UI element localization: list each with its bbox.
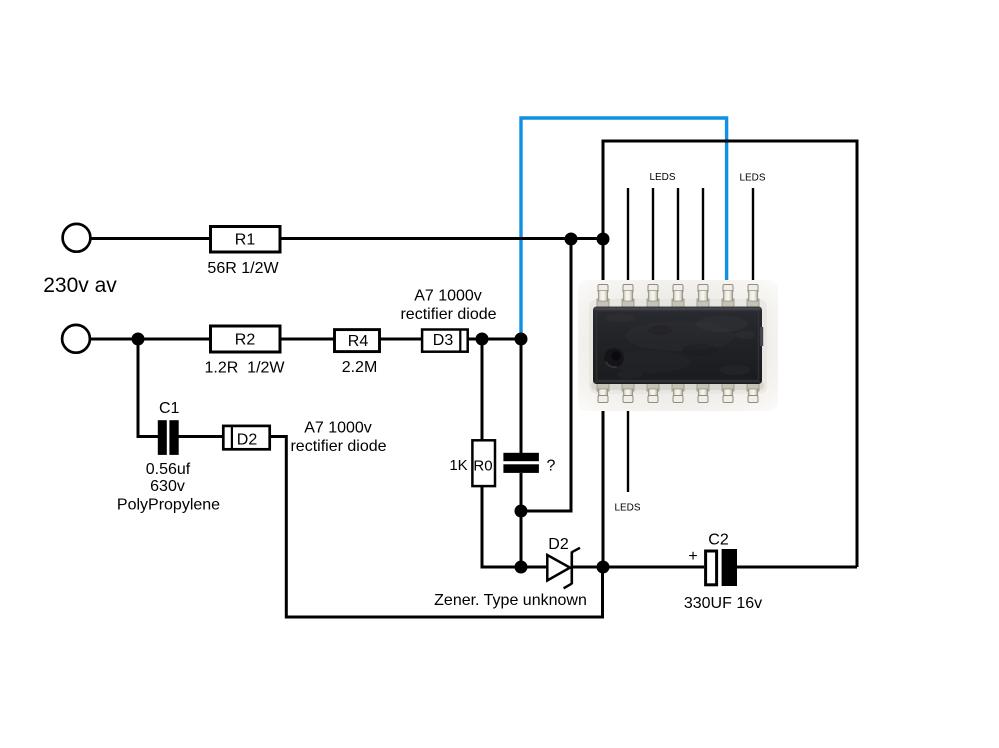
svg-text:0.56uf: 0.56uf <box>146 461 191 478</box>
LED wires (top pins 2-5) <box>628 188 703 288</box>
wire node A up over IC to right rail down to C2 <box>603 141 857 567</box>
svg-text:1.2R 1/2W: 1.2R 1/2W <box>204 359 285 376</box>
node B <box>132 333 145 346</box>
svg-text:R0: R0 <box>473 457 492 474</box>
svg-text:A7 1000v: A7 1000v <box>414 288 482 305</box>
diode D3 <box>422 329 468 353</box>
node F <box>515 561 528 574</box>
svg-text:A7 1000v: A7 1000v <box>304 420 372 437</box>
svg-text:230v av: 230v av <box>43 274 117 297</box>
wire IC pin1 top to node A2 <box>602 239 605 288</box>
wire C1 to D2 box <box>179 435 223 438</box>
IC U1 pin-1 dimple <box>604 348 624 368</box>
svg-text:rectifier diode: rectifier diode <box>400 306 496 323</box>
zener diode D2 <box>547 548 580 589</box>
blue wire (net from node C to IC pin 6 top) <box>521 118 727 338</box>
wire R2 to R4 <box>282 338 335 341</box>
terminal J2 <box>62 325 90 353</box>
svg-text:LEDS: LEDS <box>614 503 640 514</box>
wire R1 to node A <box>282 237 604 240</box>
svg-text:1K: 1K <box>449 457 467 474</box>
node A2 <box>597 233 610 246</box>
svg-text:Zener. Type unknown: Zener. Type unknown <box>434 592 587 609</box>
wire C2 to right rail <box>737 566 857 569</box>
svg-text:PolyPropylene: PolyPropylene <box>117 497 220 514</box>
svg-text:C1: C1 <box>159 400 180 417</box>
svg-text:LEDS: LEDS <box>649 172 675 183</box>
resistor R2 <box>211 326 281 352</box>
resistor R4 <box>335 330 380 352</box>
IC U1 body <box>593 307 763 385</box>
node C1 <box>476 333 489 346</box>
svg-text:R1: R1 <box>235 232 256 249</box>
svg-text:D2: D2 <box>548 536 569 553</box>
wire D3 to node C <box>468 338 521 341</box>
wire R4 to D3 <box>380 338 422 341</box>
IC U1 top pins <box>597 285 759 308</box>
svg-text:LEDS: LEDS <box>739 173 765 184</box>
IC U1 bottom pins <box>597 384 759 403</box>
LED wire (bottom pin 2) <box>627 400 629 492</box>
resistor R0 <box>472 440 495 486</box>
wire D2 box loop to node G <box>271 437 603 618</box>
wire node C2 down to capacitor <box>520 339 523 453</box>
svg-text:R2: R2 <box>235 332 256 349</box>
wire IC pin1 bottom to node G <box>602 400 605 567</box>
svg-text:D2: D2 <box>237 431 258 448</box>
svg-text:630v: 630v <box>150 478 185 495</box>
node A1 <box>565 233 578 246</box>
terminal J1 <box>63 224 91 252</box>
node G <box>597 561 610 574</box>
capacitor C? plates <box>503 453 539 473</box>
wire zener cathode to C2 <box>572 566 704 569</box>
svg-text:?: ? <box>547 457 556 474</box>
wire J1 to R1 <box>91 237 210 240</box>
wire J2 to R2 <box>90 338 211 341</box>
svg-text:330UF 16v: 330UF 16v <box>684 595 762 612</box>
wire capacitor to node F <box>520 473 523 567</box>
IC U1 SOIC-14 photo <box>578 280 778 411</box>
diode D2 (box) <box>223 426 269 450</box>
node C2 <box>515 333 528 346</box>
node E <box>515 505 528 518</box>
wire node A1 down to node E <box>521 239 571 511</box>
capacitor C2 <box>706 549 737 586</box>
capacitor C1 plates <box>158 420 179 455</box>
svg-text:R4: R4 <box>348 333 369 350</box>
wire R0 bottom to zener anode <box>482 486 547 567</box>
svg-text:rectifier diode: rectifier diode <box>290 438 386 455</box>
svg-text:+: + <box>688 548 697 565</box>
wire node C down to R0 <box>481 339 484 440</box>
svg-text:C2: C2 <box>708 532 729 549</box>
svg-text:56R 1/2W: 56R 1/2W <box>207 260 279 277</box>
resistor R1 <box>211 227 281 253</box>
svg-text:D3: D3 <box>433 332 454 349</box>
wire node B down to C1 <box>138 339 158 437</box>
svg-text:2.2M: 2.2M <box>342 359 378 376</box>
LED wire (top pin 7) <box>752 188 754 288</box>
